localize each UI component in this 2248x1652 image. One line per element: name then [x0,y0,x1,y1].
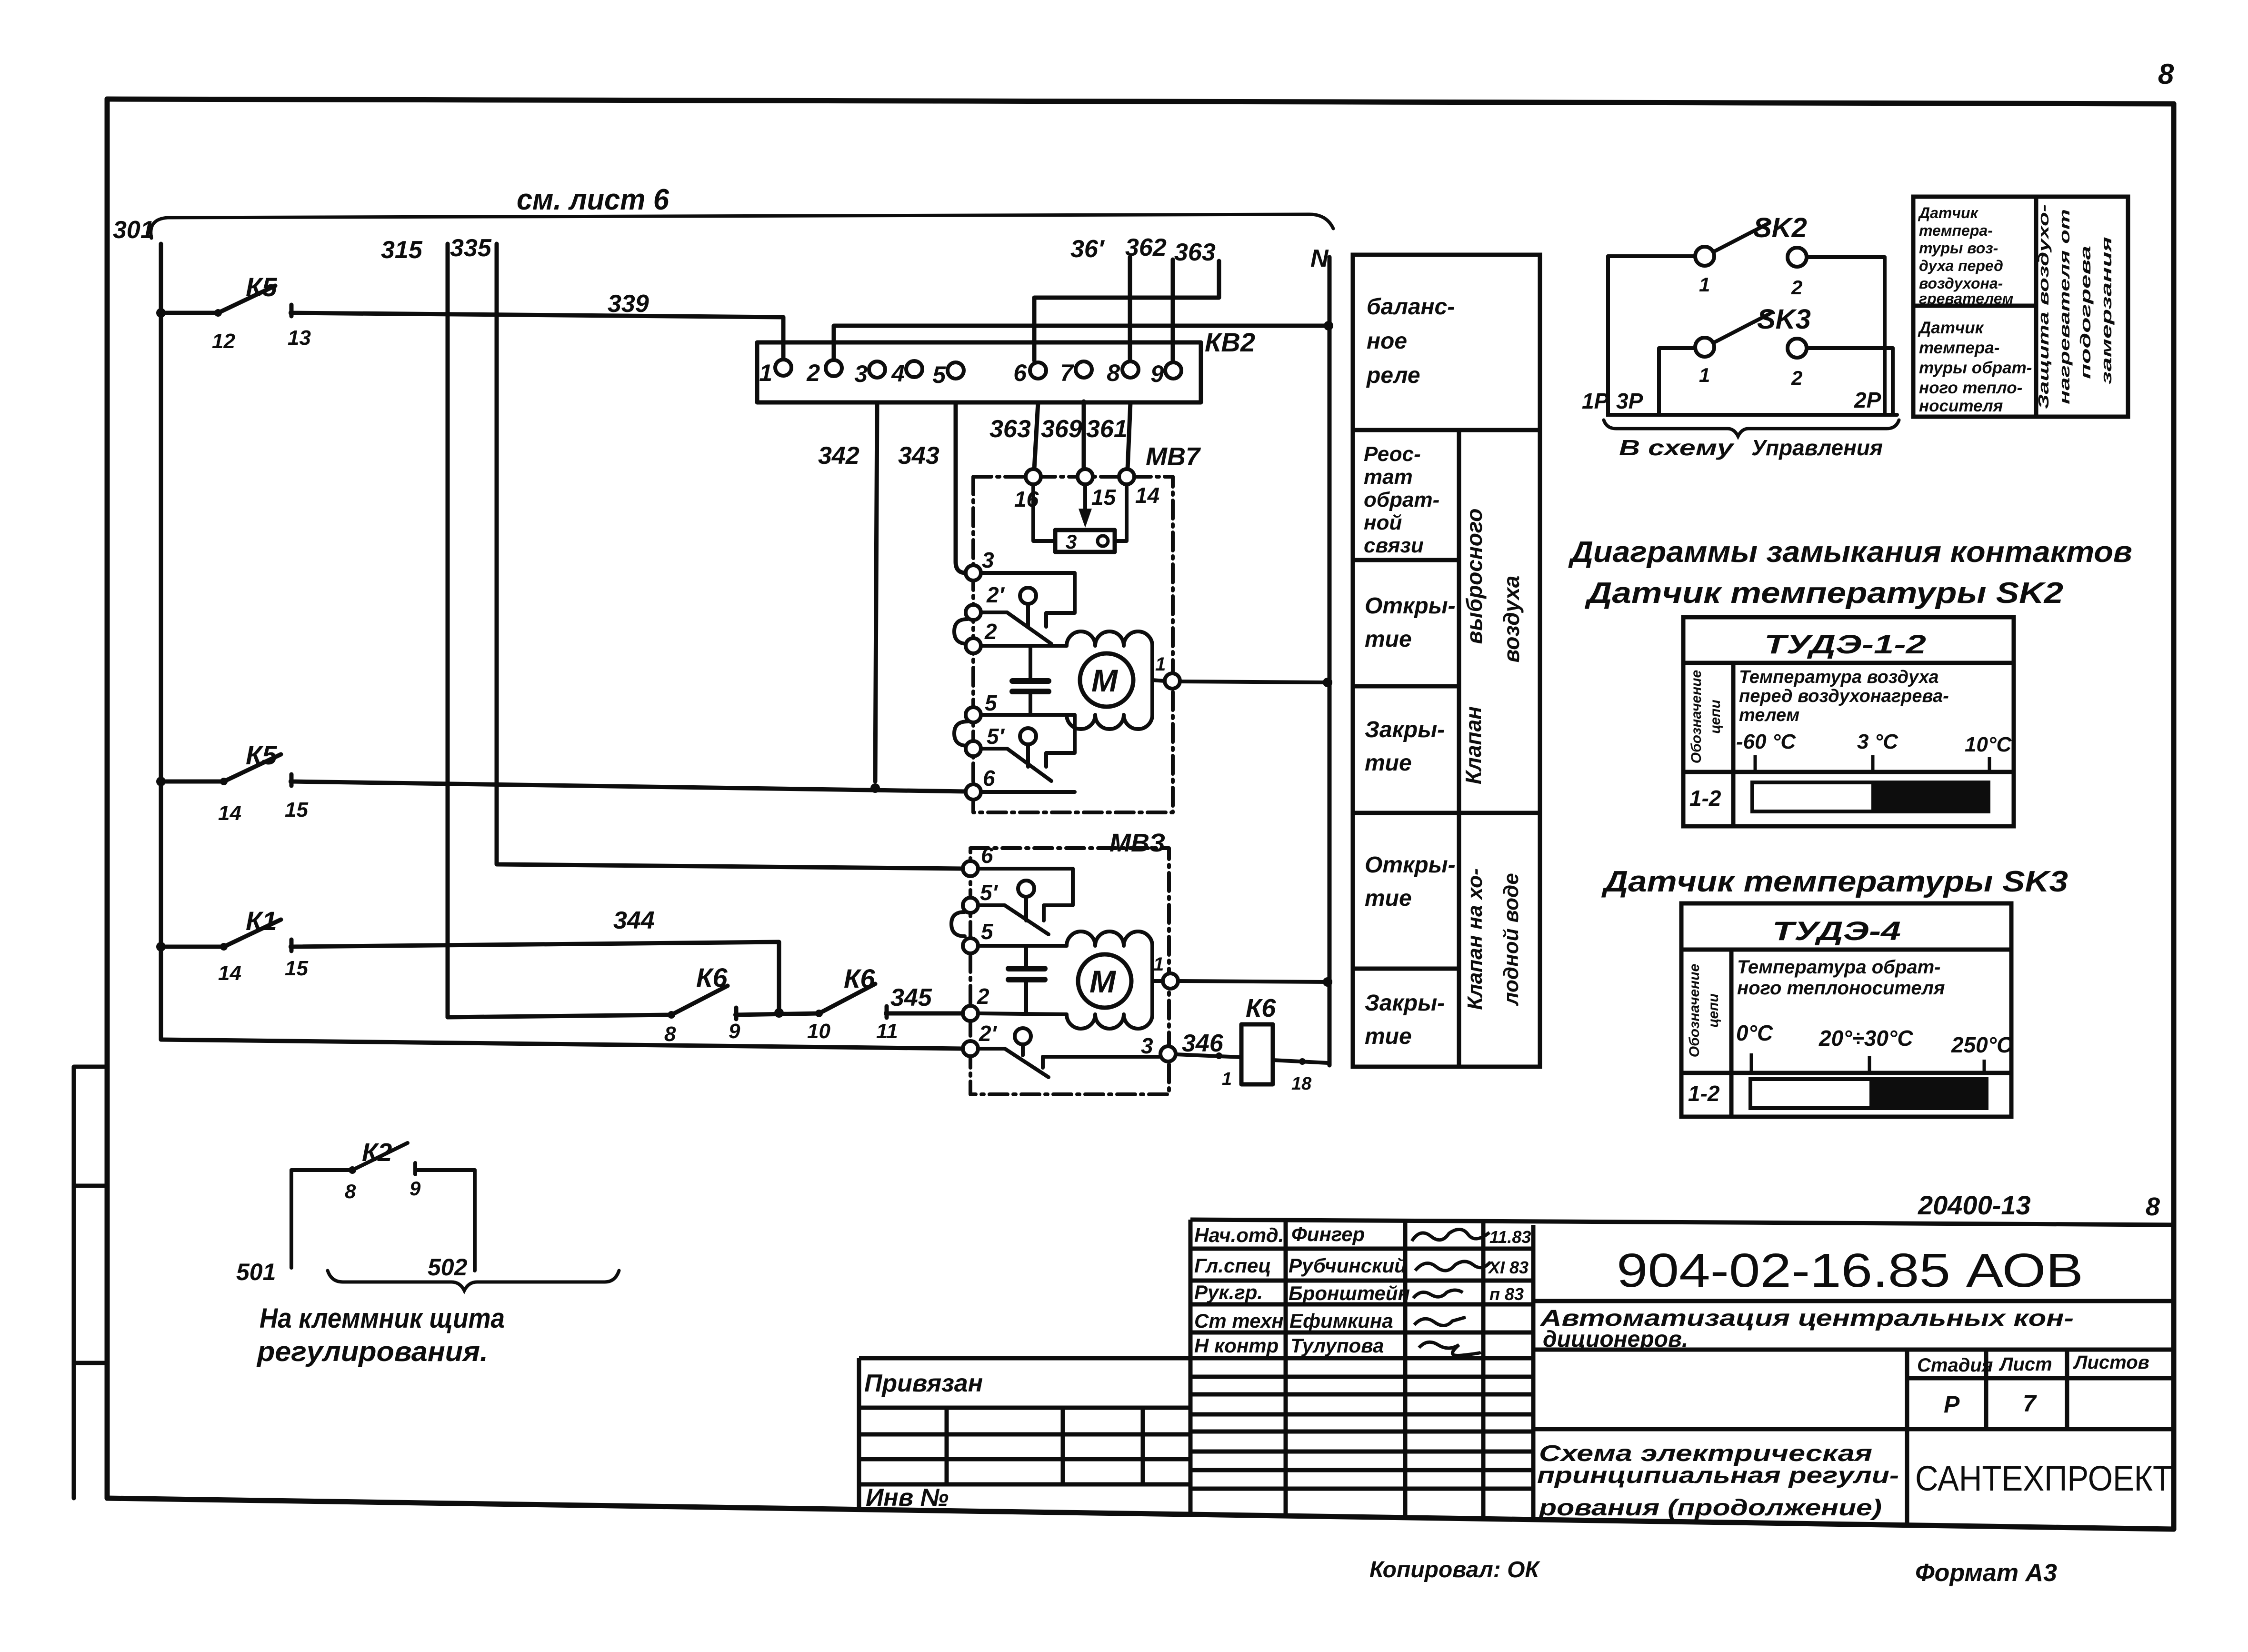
svg-text:М: М [1089,964,1117,999]
svg-text:тат: тат [1364,465,1413,489]
svg-text:339: 339 [608,290,649,318]
svg-text:Клапан на хо-: Клапан на хо- [1463,868,1487,1010]
svg-text:1: 1 [1155,654,1166,675]
svg-text:Откры-: Откры- [1365,852,1456,878]
svg-text:2Р: 2Р [1854,388,1881,412]
svg-text:5: 5 [932,361,946,388]
svg-text:6: 6 [983,766,995,791]
svg-text:Датчик температуры SK2: Датчик температуры SK2 [1584,577,2063,610]
svg-text:342: 342 [818,442,859,470]
svg-text:тие: тие [1365,627,1412,652]
svg-text:1: 1 [759,360,772,386]
svg-text:Закры-: Закры- [1365,717,1445,742]
svg-text:3: 3 [854,360,868,387]
svg-text:Нач.отд.: Нач.отд. [1194,1224,1284,1246]
svg-text:15: 15 [285,957,308,980]
svg-text:принципиальная регули-: принципиальная регули- [1537,1463,1899,1488]
svg-text:Закры-: Закры- [1365,991,1445,1016]
svg-text:К1: К1 [246,906,277,936]
svg-text:363: 363 [989,415,1031,443]
svg-text:МВЗ: МВЗ [1109,829,1165,857]
svg-text:7: 7 [2023,1390,2037,1417]
svg-text:темпера-: темпера- [1919,339,1999,357]
svg-text:лодной воде: лодной воде [1499,873,1523,1006]
svg-text:тие: тие [1365,1024,1412,1049]
svg-text:М: М [1091,663,1119,698]
svg-text:воздухона-: воздухона- [1919,275,2003,292]
svg-text:1: 1 [1222,1069,1232,1089]
svg-text:4: 4 [891,360,905,387]
svg-text:Копировал: ОК: Копировал: ОК [1369,1557,1540,1582]
svg-text:15: 15 [285,798,308,821]
svg-text:нагревателя от: нагревателя от [2056,209,2073,404]
svg-text:15: 15 [1091,485,1117,510]
svg-text:N: N [1310,245,1329,272]
svg-text:подогрева: подогрева [2077,246,2094,379]
svg-text:ТУДЭ-4: ТУДЭ-4 [1772,916,1901,946]
svg-text:502: 502 [428,1254,468,1281]
svg-text:связи: связи [1364,534,1424,557]
svg-text:МВ7: МВ7 [1146,442,1201,471]
svg-text:выбросного: выбросного [1462,509,1487,644]
svg-text:К5: К5 [246,272,277,302]
svg-text:9: 9 [729,1020,740,1043]
svg-text:Р: Р [1944,1391,1960,1418]
svg-text:тие: тие [1365,886,1412,911]
svg-text:цепи: цепи [1708,700,1723,734]
svg-text:воздуха: воздуха [1499,576,1524,663]
svg-text:1: 1 [1699,364,1710,386]
svg-text:SK3: SK3 [1757,304,1811,335]
svg-text:Бронштейн: Бронштейн [1289,1282,1410,1304]
svg-text:3: 3 [982,548,994,572]
svg-text:14: 14 [218,961,241,985]
svg-text:344: 344 [613,907,655,934]
svg-text:К6: К6 [844,963,875,993]
svg-text:Обозначение: Обозначение [1688,670,1704,764]
svg-text:9: 9 [410,1177,421,1200]
svg-text:Гл.спец: Гл.спец [1194,1254,1271,1277]
svg-text:-60 °С: -60 °С [1736,730,1796,753]
svg-text:1-2: 1-2 [1688,1081,1720,1106]
svg-text:ное: ное [1367,329,1407,354]
svg-text:туры воз-: туры воз- [1919,240,1998,257]
svg-text:8: 8 [2146,1192,2160,1221]
svg-text:13: 13 [288,326,311,350]
svg-text:реле: реле [1366,363,1420,388]
svg-text:12: 12 [212,330,235,353]
svg-text:Ефимкина: Ефимкина [1289,1310,1393,1332]
svg-text:3 °С: 3 °С [1857,730,1898,753]
svg-text:SK2: SK2 [1753,212,1807,243]
svg-text:Клапан: Клапан [1461,706,1486,784]
svg-text:0°С: 0°С [1736,1021,1773,1045]
svg-text:250°С: 250°С [1951,1032,2013,1057]
svg-text:тие: тие [1365,751,1412,776]
svg-text:2: 2 [977,984,989,1009]
svg-text:1Р: 1Р [1582,389,1609,413]
svg-text:301: 301 [113,216,154,244]
svg-text:XI 83: XI 83 [1488,1258,1529,1277]
svg-text:9: 9 [1150,360,1164,387]
svg-text:обрат-: обрат- [1364,488,1439,511]
svg-text:Диаграммы замыкания контакто: Диаграммы замыкания контактов [1568,536,2132,569]
svg-text:36′: 36′ [1070,235,1105,263]
svg-text:5: 5 [981,919,994,944]
svg-text:5′: 5′ [980,880,999,905]
svg-text:Лист: Лист [1998,1354,2052,1375]
svg-text:Температура обрат-: Температура обрат- [1737,957,1940,978]
svg-text:ной: ной [1364,511,1402,534]
svg-text:11.83: 11.83 [1489,1227,1531,1247]
svg-text:14: 14 [218,801,241,825]
svg-text:Обозначение: Обозначение [1687,964,1702,1058]
svg-text:6: 6 [981,843,993,868]
svg-text:5′: 5′ [987,724,1005,749]
svg-text:КВ2: КВ2 [1205,327,1255,357]
svg-text:2′: 2′ [979,1021,998,1046]
svg-text:САНТЕХПРОЕКТ: САНТЕХПРОЕКТ [1915,1459,2172,1498]
svg-text:10°С: 10°С [1965,733,2012,756]
svg-text:Инв №: Инв № [866,1484,949,1512]
svg-text:п 83: п 83 [1489,1284,1524,1304]
svg-text:К5: К5 [246,740,277,770]
svg-text:замерзания: замерзания [2098,237,2115,384]
svg-text:баланс-: баланс- [1367,294,1455,320]
svg-text:Ст техн.: Ст техн. [1194,1310,1289,1332]
svg-text:ТУДЭ-1-2: ТУДЭ-1-2 [1764,629,1926,659]
svg-text:Датчик: Датчик [1918,319,1985,337]
svg-text:8: 8 [1107,360,1120,386]
svg-text:К6: К6 [1246,994,1276,1022]
svg-text:361: 361 [1086,415,1128,443]
svg-text:3Р: 3Р [1616,389,1643,413]
svg-text:16: 16 [1014,487,1039,511]
svg-text:2′: 2′ [986,582,1005,607]
svg-text:рования (продолжение): рования (продолжение) [1538,1495,1882,1521]
svg-text:8: 8 [2158,58,2174,90]
svg-text:501: 501 [236,1259,276,1285]
svg-text:2: 2 [1791,276,1802,299]
svg-text:Н контр: Н контр [1194,1334,1279,1357]
svg-text:343: 343 [898,442,939,470]
svg-text:7: 7 [1060,360,1074,386]
svg-text:ного теплоносителя: ного теплоносителя [1737,978,1945,999]
svg-text:темпера-: темпера- [1919,222,1993,239]
svg-text:3: 3 [1066,531,1077,553]
svg-text:см. лист 6: см. лист 6 [517,183,669,216]
svg-text:туры обрат-: туры обрат- [1919,359,2032,377]
svg-text:2: 2 [806,360,820,386]
svg-text:носителя: носителя [1919,397,2003,415]
svg-text:10: 10 [807,1020,830,1043]
svg-text:диционеров.: диционеров. [1543,1327,1688,1352]
svg-text:3: 3 [1141,1033,1153,1058]
svg-text:1-2: 1-2 [1689,786,1721,811]
svg-text:На клеммник щита: На клеммник щита [260,1303,505,1334]
svg-text:315: 315 [381,236,423,264]
svg-text:Стадия: Стадия [1917,1355,1993,1376]
svg-text:Датчик: Датчик [1918,204,1979,221]
svg-text:Рук.гр.: Рук.гр. [1194,1281,1263,1303]
svg-text:К2: К2 [362,1138,392,1167]
svg-text:363: 363 [1174,239,1216,266]
svg-text:8: 8 [664,1022,676,1046]
svg-text:369: 369 [1041,415,1082,443]
svg-text:перед воздухонагрева-: перед воздухонагрева- [1739,686,1949,706]
svg-text:регулирования.: регулирования. [256,1336,488,1367]
svg-text:гревателем: гревателем [1919,290,2014,307]
svg-text:20400-13: 20400-13 [1918,1190,2031,1220]
svg-text:14: 14 [1135,483,1159,508]
svg-text:Формат А3: Формат А3 [1915,1559,2057,1587]
svg-text:ного тепло-: ного тепло- [1919,379,2022,397]
svg-text:904-02-16.85 АОВ: 904-02-16.85 АОВ [1617,1244,2083,1297]
svg-text:Реос-: Реос- [1364,442,1421,466]
svg-text:8: 8 [345,1180,356,1202]
svg-text:духа перед: духа перед [1919,257,2003,274]
svg-text:Датчик температуры SK3: Датчик температуры SK3 [1601,865,2068,898]
svg-text:5: 5 [985,691,998,715]
svg-text:1: 1 [1153,954,1164,975]
svg-text:2: 2 [1791,367,1802,389]
svg-text:цепи: цепи [1706,993,1721,1028]
svg-text:346: 346 [1182,1030,1224,1057]
svg-text:Температура воздуха: Температура воздуха [1739,667,1939,687]
svg-text:362: 362 [1125,234,1167,261]
svg-text:Привязан: Привязан [864,1370,983,1397]
svg-text:6: 6 [1013,360,1027,386]
svg-text:Управления: Управления [1751,435,1883,460]
svg-text:В схему: В схему [1619,435,1735,460]
svg-text:1: 1 [1699,273,1710,296]
svg-text:20°÷30°С: 20°÷30°С [1818,1026,1913,1051]
svg-text:18: 18 [1291,1074,1312,1094]
svg-text:К6: К6 [696,962,728,992]
svg-text:Тулупова: Тулупова [1290,1334,1384,1357]
svg-text:345: 345 [890,984,932,1011]
svg-text:Защита воздухо-: Защита воздухо- [2035,204,2052,409]
svg-text:Листов: Листов [2073,1352,2149,1373]
svg-text:335: 335 [450,234,492,262]
svg-text:11: 11 [876,1020,898,1043]
svg-text:Откры-: Откры- [1365,593,1456,619]
svg-text:Рубчинский: Рубчинский [1289,1254,1407,1277]
svg-text:Фингер: Фингер [1291,1223,1365,1245]
svg-text:телем: телем [1739,705,1799,725]
svg-text:2: 2 [984,619,997,644]
